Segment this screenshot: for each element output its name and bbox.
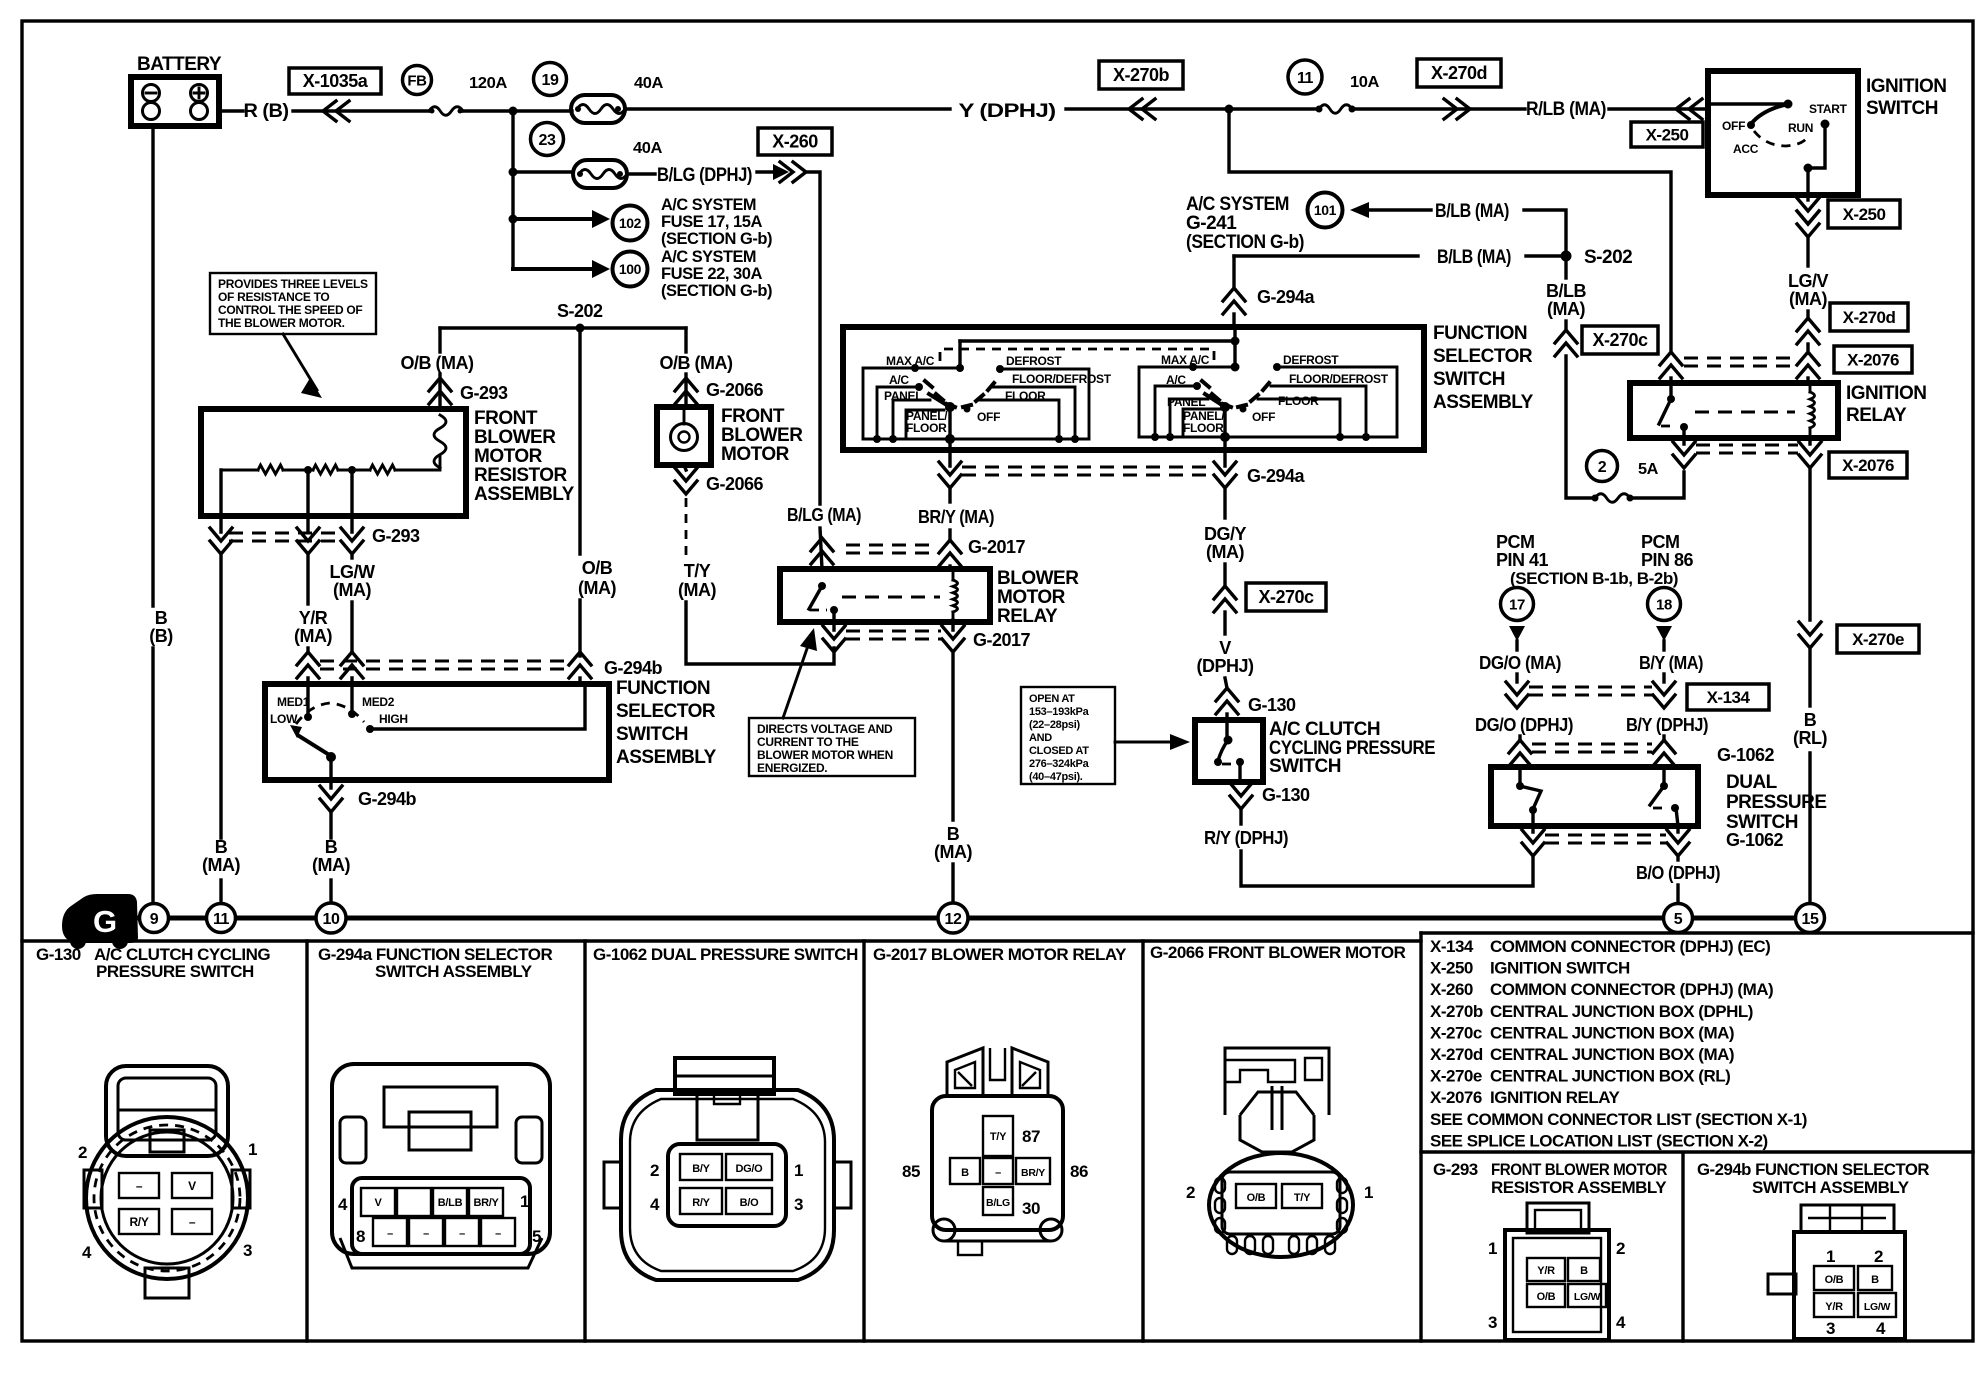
wire B/LB (MA) row1	[1435, 201, 1566, 256]
legend G-2066 title	[1150, 943, 1406, 962]
connector X-270c (center)	[1246, 583, 1326, 611]
svg-text:S-202: S-202	[1584, 247, 1632, 268]
svg-text:PRESSURE: PRESSURE	[1726, 792, 1827, 813]
svg-text:IGNITION RELAY: IGNITION RELAY	[1490, 1088, 1620, 1107]
svg-text:G-1062: G-1062	[1726, 830, 1784, 850]
connector X-270c (right)	[1582, 326, 1658, 354]
ground car icon G	[62, 894, 138, 949]
svg-text:2: 2	[1598, 459, 1607, 476]
legend connector list	[1430, 937, 1807, 1150]
svg-text:G-294b: G-294b	[604, 658, 663, 678]
svg-text:G-2066 FRONT BLOWER MOTOR: G-2066 FRONT BLOWER MOTOR	[1150, 943, 1406, 962]
svg-text:RESISTOR: RESISTOR	[474, 465, 568, 486]
wire Y (DPHJ)	[625, 99, 1319, 122]
legend table frame	[22, 933, 1973, 1341]
svg-text:FLOOR: FLOOR	[1278, 394, 1319, 408]
svg-text:B/LB: B/LB	[1546, 281, 1586, 301]
wire O/B (MA) to motor	[660, 328, 764, 407]
svg-text:Y (DPHJ): Y (DPHJ)	[959, 101, 1056, 122]
svg-text:PANEL: PANEL	[1167, 395, 1205, 409]
wire B/O (DPHJ)	[1636, 856, 1720, 903]
wire T/Y (MA)	[678, 498, 834, 664]
svg-text:B: B	[1804, 710, 1817, 730]
wire B/Y (DPHJ)	[1532, 715, 1775, 767]
wire B/Y (MA)	[1639, 653, 1703, 708]
fuse 11, 10A	[1288, 60, 1380, 113]
svg-text:–: –	[495, 1228, 501, 1240]
svg-text:G-2066: G-2066	[706, 380, 764, 400]
svg-text:FRONT: FRONT	[474, 408, 538, 429]
splice S-202 right	[1561, 247, 1633, 268]
svg-text:SWITCH ASSEMBLY: SWITCH ASSEMBLY	[1752, 1178, 1910, 1197]
svg-text:B/LB (MA): B/LB (MA)	[1437, 247, 1511, 268]
svg-text:(DPHJ): (DPHJ)	[1196, 656, 1254, 676]
wire R/Y (DPHJ)	[1204, 809, 1533, 886]
fuse 23, 40A	[513, 123, 663, 189]
svg-text:(MA): (MA)	[333, 580, 371, 600]
wire B (MA) selector to ground	[312, 837, 350, 904]
svg-text:G-294b FUNCTION SELECTOR: G-294b FUNCTION SELECTOR	[1697, 1160, 1929, 1179]
svg-text:40A: 40A	[633, 140, 663, 157]
svg-text:5A: 5A	[1638, 461, 1659, 478]
svg-text:OFF: OFF	[977, 410, 1000, 424]
svg-text:15: 15	[1802, 911, 1819, 928]
svg-text:X-270d: X-270d	[1431, 63, 1487, 83]
connector G-2017 below relay	[823, 620, 1031, 652]
svg-text:B: B	[325, 837, 338, 857]
svg-text:G-294b: G-294b	[358, 789, 417, 809]
svg-text:MAX A/C: MAX A/C	[886, 354, 935, 368]
svg-text:10: 10	[323, 911, 340, 928]
connector X-1035a	[289, 68, 381, 94]
svg-text:OFF: OFF	[1722, 119, 1745, 133]
svg-text:MOTOR: MOTOR	[997, 587, 1066, 608]
wire B/LB (MA) feed drop to selector	[1223, 256, 1316, 327]
ignition relay K	[1630, 383, 1926, 438]
connector X-270b	[1099, 61, 1183, 89]
svg-text:CENTRAL JUNCTION BOX (MA): CENTRAL JUNCTION BOX (MA)	[1490, 1045, 1734, 1064]
svg-text:DG/O (DPHJ): DG/O (DPHJ)	[1475, 715, 1573, 735]
svg-text:G-130: G-130	[1248, 695, 1296, 715]
ground node 11	[207, 904, 236, 933]
mode switch section 2	[1139, 327, 1397, 450]
connector G-2066 below motor	[675, 465, 764, 494]
legend G-294b title	[1697, 1160, 1929, 1197]
node 101 to A/C system G-241	[1186, 193, 1431, 254]
svg-text:4: 4	[1616, 1313, 1626, 1332]
svg-text:(MA): (MA)	[934, 842, 972, 862]
svg-text:V: V	[1219, 638, 1231, 658]
legend G-294a title	[318, 945, 552, 981]
svg-text:FLOOR: FLOOR	[906, 421, 947, 435]
svg-text:X-250: X-250	[1843, 205, 1886, 224]
svg-text:5: 5	[1674, 911, 1683, 928]
svg-text:B: B	[947, 824, 960, 844]
svg-text:2: 2	[1874, 1247, 1883, 1266]
svg-text:1: 1	[794, 1161, 803, 1180]
connector G-294b output	[320, 780, 417, 838]
svg-text:2: 2	[1186, 1183, 1195, 1202]
svg-text:4: 4	[650, 1195, 660, 1214]
wire R (B) from battery	[219, 101, 572, 122]
ignition relay switch arm	[1659, 383, 1688, 438]
wire DG/Y (MA)	[1204, 488, 1247, 634]
wire DG/O (MA)	[1479, 653, 1561, 708]
svg-text:B/Y (MA): B/Y (MA)	[1639, 653, 1703, 673]
svg-text:ASSEMBLY: ASSEMBLY	[474, 484, 575, 505]
svg-text:IGNITION: IGNITION	[1866, 76, 1946, 97]
relay switch arm	[809, 582, 838, 622]
svg-text:CLOSED AT: CLOSED AT	[1029, 745, 1089, 757]
mechanical link dashed	[940, 349, 1214, 363]
svg-text:PCM: PCM	[1641, 532, 1680, 552]
svg-text:ACC: ACC	[1733, 142, 1759, 156]
note: provides three levels of resistance	[210, 273, 376, 398]
svg-text:(22–28psi): (22–28psi)	[1029, 719, 1080, 731]
svg-text:B/O: B/O	[740, 1197, 759, 1209]
note: directs voltage to blower motor	[749, 628, 915, 776]
svg-text:LG/V: LG/V	[1788, 271, 1828, 291]
svg-text:SWITCH ASSEMBLY: SWITCH ASSEMBLY	[375, 962, 533, 981]
svg-text:R (B): R (B)	[244, 101, 289, 122]
wire B/LG (DPHJ)	[627, 162, 820, 504]
wire LG/W (MA)	[330, 554, 375, 652]
svg-text:A/C SYSTEM: A/C SYSTEM	[1186, 194, 1289, 215]
svg-text:(MA): (MA)	[1547, 299, 1585, 319]
svg-text:10A: 10A	[1350, 74, 1380, 91]
svg-text:ENERGIZED.: ENERGIZED.	[757, 761, 827, 775]
svg-text:SWITCH: SWITCH	[1433, 369, 1505, 390]
connector G-294b run	[297, 652, 663, 684]
note: open at kPa	[1021, 687, 1190, 784]
svg-text:MOTOR: MOTOR	[474, 446, 543, 467]
svg-text:(SECTION B-1b, B-2b): (SECTION B-1b, B-2b)	[1510, 569, 1678, 588]
A/C clutch cycling pressure switch	[1195, 719, 1435, 782]
svg-text:CENTRAL JUNCTION BOX (MA): CENTRAL JUNCTION BOX (MA)	[1490, 1023, 1734, 1042]
svg-text:8: 8	[356, 1227, 365, 1246]
svg-text:B/LB (MA): B/LB (MA)	[1435, 201, 1509, 222]
svg-text:BLOWER MOTOR WHEN: BLOWER MOTOR WHEN	[757, 748, 893, 762]
svg-text:(MA): (MA)	[202, 855, 240, 875]
svg-text:LG/W: LG/W	[1574, 1291, 1601, 1303]
svg-text:2: 2	[650, 1161, 659, 1180]
svg-text:FRONT BLOWER MOTOR: FRONT BLOWER MOTOR	[1491, 1160, 1667, 1179]
svg-text:–: –	[459, 1228, 465, 1240]
svg-text:19: 19	[542, 72, 559, 89]
svg-text:IGNITION SWITCH: IGNITION SWITCH	[1490, 959, 1630, 978]
svg-text:X-1035a: X-1035a	[303, 71, 369, 91]
resistor chain elements	[221, 455, 440, 516]
svg-text:4: 4	[82, 1243, 92, 1262]
connector G-130 below	[1230, 783, 1310, 809]
svg-text:G-241: G-241	[1186, 213, 1237, 234]
wire LG/V (MA)	[1788, 271, 1828, 383]
svg-text:ASSEMBLY: ASSEMBLY	[616, 747, 717, 768]
svg-text:Y/R: Y/R	[299, 608, 328, 628]
mode switch section 1	[863, 341, 1235, 450]
ground bus wire	[108, 916, 1810, 921]
svg-text:X-260: X-260	[1430, 980, 1473, 999]
svg-text:IGNITION: IGNITION	[1846, 383, 1926, 404]
svg-text:(SECTION G-b): (SECTION G-b)	[661, 281, 772, 300]
svg-text:DUAL: DUAL	[1726, 772, 1778, 793]
svg-text:O/B (MA): O/B (MA)	[401, 353, 474, 373]
svg-text:X-2076: X-2076	[1842, 456, 1894, 475]
legend G-293 title	[1433, 1160, 1667, 1197]
svg-text:1: 1	[248, 1140, 257, 1159]
svg-text:(MA): (MA)	[1789, 289, 1827, 309]
svg-text:OF RESISTANCE TO: OF RESISTANCE TO	[218, 290, 329, 304]
connector view G-294a	[332, 1064, 550, 1268]
svg-text:AND: AND	[1029, 732, 1052, 744]
svg-text:R/Y: R/Y	[692, 1197, 710, 1209]
resistor coil element	[434, 415, 446, 468]
svg-text:THE BLOWER MOTOR.: THE BLOWER MOTOR.	[218, 316, 345, 330]
svg-text:B/LB: B/LB	[438, 1197, 463, 1209]
svg-text:X-250: X-250	[1430, 959, 1473, 978]
svg-text:PIN 41: PIN 41	[1496, 550, 1549, 570]
connector X-250 below	[1797, 195, 1900, 266]
connector X-2076 dashed run upper	[1684, 358, 1796, 366]
svg-text:V: V	[188, 1179, 196, 1193]
svg-text:R/Y (DPHJ): R/Y (DPHJ)	[1204, 828, 1288, 848]
wire B (MA) resistor to ground	[202, 554, 240, 904]
svg-text:9: 9	[150, 911, 159, 928]
svg-text:3: 3	[1826, 1319, 1835, 1338]
svg-text:B/LG (MA): B/LG (MA)	[787, 505, 861, 525]
resistor assembly R front blower motor	[201, 408, 575, 516]
svg-text:23: 23	[539, 132, 556, 149]
svg-text:SWITCH: SWITCH	[1866, 98, 1938, 119]
svg-text:X-2076: X-2076	[1847, 351, 1899, 370]
svg-text:BR/Y: BR/Y	[1021, 1167, 1045, 1179]
svg-text:X-270b: X-270b	[1113, 65, 1170, 85]
dual pressure switch	[1491, 767, 1827, 833]
svg-text:B/LG (DPHJ): B/LG (DPHJ)	[657, 165, 752, 186]
svg-text:ASSEMBLY: ASSEMBLY	[1433, 392, 1534, 413]
svg-text:40A: 40A	[634, 75, 664, 92]
svg-text:LG/W: LG/W	[1864, 1301, 1891, 1313]
svg-text:–: –	[387, 1228, 393, 1240]
svg-text:T/Y: T/Y	[990, 1131, 1007, 1143]
svg-text:SEE SPLICE LOCATION LIST (SECT: SEE SPLICE LOCATION LIST (SECTION X-2)	[1430, 1131, 1768, 1150]
svg-text:(SECTION G-b): (SECTION G-b)	[1186, 232, 1304, 253]
svg-text:MAX A/C: MAX A/C	[1161, 353, 1210, 367]
svg-text:CENTRAL JUNCTION BOX (DPHL): CENTRAL JUNCTION BOX (DPHL)	[1490, 1002, 1753, 1021]
svg-text:G-293: G-293	[372, 526, 420, 546]
fuse 2, 5A	[1587, 451, 1685, 503]
svg-text:X-260: X-260	[772, 132, 818, 152]
node 102 A/C system fuse 17	[513, 195, 772, 248]
svg-text:G-293: G-293	[460, 383, 508, 403]
svg-text:FUNCTION: FUNCTION	[616, 678, 710, 699]
svg-text:MED2: MED2	[362, 695, 395, 709]
svg-text:DG/O (MA): DG/O (MA)	[1479, 653, 1561, 673]
connector X-260	[758, 128, 832, 155]
svg-text:(40–47psi).: (40–47psi).	[1029, 771, 1083, 783]
svg-text:3: 3	[794, 1195, 803, 1214]
wire R/LB (MA)	[1352, 99, 1708, 120]
svg-text:B/Y (DPHJ): B/Y (DPHJ)	[1626, 715, 1708, 735]
svg-text:DG/O: DG/O	[736, 1163, 764, 1175]
svg-text:–: –	[189, 1215, 196, 1229]
svg-text:SELECTOR: SELECTOR	[1433, 346, 1533, 367]
wire B/LB (MA) rail down to 5A	[1546, 256, 1595, 498]
svg-text:RELAY: RELAY	[1846, 405, 1907, 426]
node PCM pin41	[1496, 532, 1549, 650]
svg-text:G: G	[93, 904, 117, 939]
svg-text:B: B	[1580, 1265, 1588, 1277]
svg-text:FLOOR: FLOOR	[1183, 421, 1224, 435]
switch speed contacts	[270, 684, 585, 780]
svg-text:X-270d: X-270d	[1430, 1045, 1483, 1064]
svg-text:(MA): (MA)	[678, 580, 716, 600]
connector G-294a run	[939, 450, 1306, 488]
legend G-130 title	[36, 945, 270, 981]
svg-text:COMMON CONNECTOR (DPHJ) (MA): COMMON CONNECTOR (DPHJ) (MA)	[1490, 980, 1773, 999]
svg-text:Y/R: Y/R	[1537, 1265, 1555, 1277]
ground node 9	[140, 904, 169, 933]
node PCM pin86	[1510, 532, 1694, 650]
svg-text:B: B	[1871, 1274, 1879, 1286]
connector X-270d right	[1830, 303, 1908, 331]
svg-text:DIRECTS VOLTAGE AND: DIRECTS VOLTAGE AND	[757, 722, 893, 736]
svg-text:B: B	[155, 608, 168, 628]
svg-text:G-1062: G-1062	[1717, 745, 1775, 765]
svg-text:LOW: LOW	[270, 712, 298, 726]
svg-text:153–193kPa: 153–193kPa	[1029, 706, 1090, 718]
svg-text:B/Y: B/Y	[692, 1163, 710, 1175]
connector view G-2066	[1186, 1048, 1373, 1257]
svg-text:(MA): (MA)	[1206, 542, 1244, 562]
svg-text:O/B: O/B	[1247, 1192, 1266, 1204]
ground node 15	[1796, 904, 1825, 933]
svg-text:PRESSURE SWITCH: PRESSURE SWITCH	[96, 962, 254, 981]
ignition switch contacts	[1708, 100, 1848, 196]
svg-text:S-202: S-202	[557, 301, 603, 321]
legend G-2017 title	[873, 945, 1127, 964]
wire B (RL)	[1793, 468, 1919, 904]
svg-text:BATTERY: BATTERY	[137, 54, 222, 75]
svg-text:Y/R: Y/R	[1825, 1301, 1843, 1313]
connector X-2076 upper	[1834, 346, 1912, 373]
svg-text:BLOWER: BLOWER	[474, 427, 556, 448]
svg-text:86: 86	[1070, 1162, 1088, 1181]
svg-text:A/C CLUTCH: A/C CLUTCH	[1269, 719, 1380, 740]
connector view G-130	[78, 1066, 257, 1298]
svg-text:87: 87	[1022, 1127, 1040, 1146]
svg-text:3: 3	[1488, 1313, 1497, 1332]
svg-text:G-294a: G-294a	[1257, 287, 1316, 307]
svg-text:RELAY: RELAY	[997, 606, 1058, 627]
svg-text:OPEN AT: OPEN AT	[1029, 693, 1075, 705]
svg-text:–: –	[995, 1167, 1001, 1179]
svg-text:SWITCH: SWITCH	[616, 724, 688, 745]
ground node 5	[1664, 904, 1693, 933]
svg-text:HIGH: HIGH	[379, 712, 408, 726]
battery	[131, 54, 222, 126]
svg-text:X-270e: X-270e	[1430, 1067, 1482, 1086]
svg-text:G-1062 DUAL PRESSURE SWITCH: G-1062 DUAL PRESSURE SWITCH	[593, 945, 858, 964]
svg-text:X-134: X-134	[1430, 937, 1474, 956]
svg-text:SWITCH: SWITCH	[1269, 756, 1341, 777]
svg-text:X-270c: X-270c	[1258, 587, 1314, 607]
ignition switch SW	[1708, 71, 1946, 195]
svg-text:G-293: G-293	[1433, 1160, 1478, 1179]
svg-text:11: 11	[1297, 70, 1314, 87]
connector view G-2017	[902, 1048, 1088, 1255]
dual pressure left contact	[1516, 767, 1541, 826]
svg-text:CENTRAL JUNCTION BOX (RL): CENTRAL JUNCTION BOX (RL)	[1490, 1067, 1730, 1086]
svg-text:T/Y: T/Y	[684, 561, 711, 581]
svg-text:–: –	[136, 1179, 143, 1193]
svg-text:11: 11	[213, 911, 230, 928]
svg-text:G-130: G-130	[1262, 785, 1310, 805]
connector view G-293	[1488, 1203, 1626, 1340]
fuse 19, 40A	[534, 63, 664, 124]
legend G-1062 title	[593, 945, 858, 964]
svg-text:X-270d: X-270d	[1843, 308, 1896, 327]
svg-text:DEFROST: DEFROST	[1283, 353, 1339, 367]
svg-text:CONTROL THE SPEED OF: CONTROL THE SPEED OF	[218, 303, 362, 317]
svg-text:B/LG: B/LG	[986, 1197, 1010, 1209]
svg-text:(RL): (RL)	[1793, 728, 1827, 748]
svg-text:4: 4	[1876, 1319, 1886, 1338]
blower motor relay K	[780, 568, 1079, 627]
svg-text:X-134: X-134	[1707, 688, 1751, 707]
wire O/B (MA) to resistor	[401, 328, 509, 409]
wire B/LB (MA) row2	[1234, 247, 1566, 268]
function selector switch assembly (mode)	[843, 323, 1534, 450]
connector X-134 run	[1529, 684, 1769, 710]
svg-text:X-270e: X-270e	[1852, 630, 1904, 649]
connector X-250 left	[1631, 122, 1703, 147]
svg-text:LG/W: LG/W	[330, 562, 375, 582]
svg-text:1: 1	[1364, 1183, 1373, 1202]
svg-text:102: 102	[619, 215, 642, 231]
svg-text:G-2017: G-2017	[973, 630, 1031, 650]
svg-text:1: 1	[1488, 1239, 1497, 1258]
ground node 10	[316, 903, 346, 933]
svg-text:PROVIDES THREE LEVELS: PROVIDES THREE LEVELS	[218, 277, 368, 291]
svg-text:18: 18	[1656, 596, 1672, 613]
connector G-1062 below	[1522, 826, 1784, 856]
function selector switch assembly (speed)	[265, 678, 717, 780]
svg-text:G-2017: G-2017	[968, 537, 1026, 557]
svg-text:3: 3	[243, 1241, 252, 1260]
svg-text:(MA): (MA)	[294, 626, 332, 646]
node 100 A/C system fuse 22	[513, 247, 772, 300]
svg-text:MED1: MED1	[277, 695, 310, 709]
connector view G-1062	[604, 1058, 851, 1280]
wire Y/R (MA)	[294, 554, 332, 652]
svg-text:O/B: O/B	[1537, 1291, 1556, 1303]
ground node 12	[938, 903, 968, 933]
svg-text:O/B (MA): O/B (MA)	[660, 353, 733, 373]
svg-text:OFF: OFF	[1252, 410, 1275, 424]
svg-text:DG/Y: DG/Y	[1204, 524, 1247, 544]
svg-text:RUN: RUN	[1788, 121, 1813, 135]
svg-text:5: 5	[532, 1227, 541, 1246]
svg-text:–: –	[423, 1228, 429, 1240]
ignition relay coil	[1695, 383, 1815, 438]
svg-text:V: V	[374, 1197, 382, 1209]
svg-text:CURRENT TO THE: CURRENT TO THE	[757, 735, 859, 749]
svg-text:BLOWER: BLOWER	[721, 425, 803, 446]
svg-text:(B): (B)	[149, 626, 173, 646]
front blower motor M	[657, 406, 803, 465]
svg-text:COMMON CONNECTOR (DPHJ) (EC): COMMON CONNECTOR (DPHJ) (EC)	[1490, 937, 1770, 956]
